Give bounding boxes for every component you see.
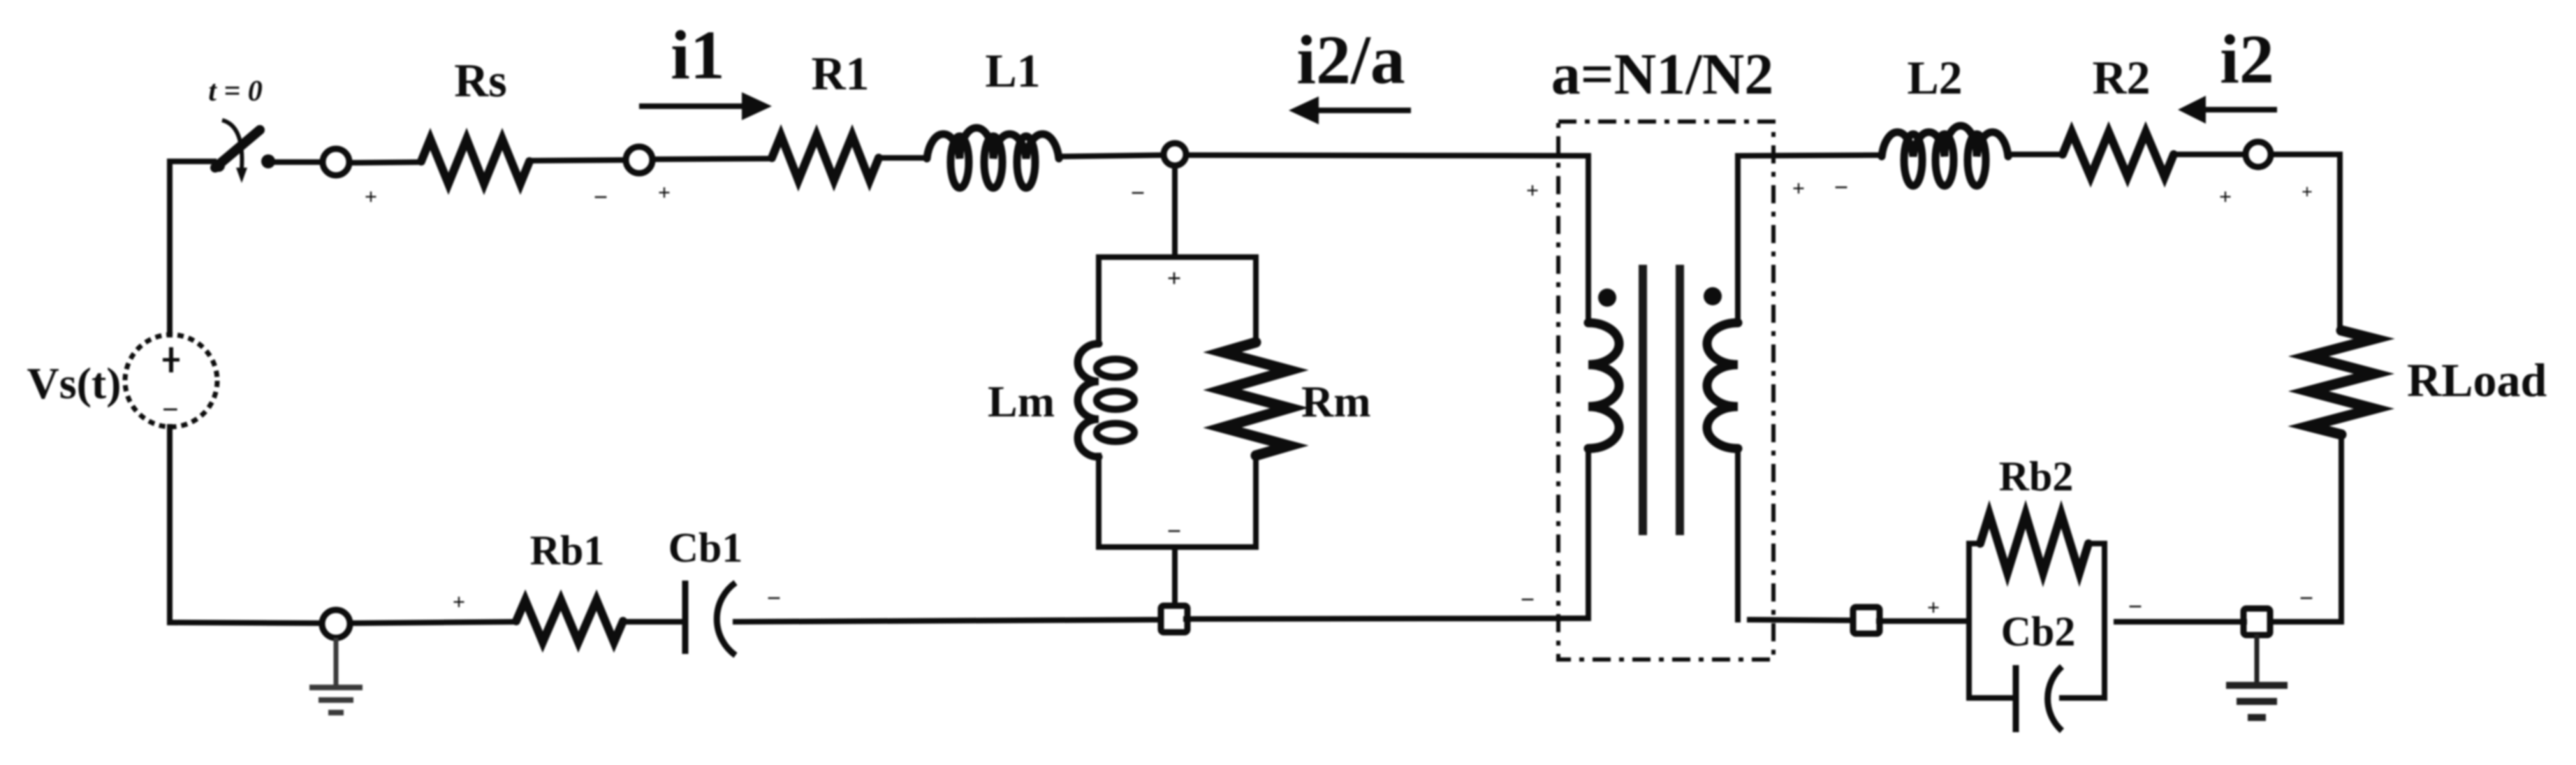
svg-text:−: − xyxy=(1521,585,1535,613)
svg-text:RLoad: RLoad xyxy=(2407,354,2547,407)
svg-text:R2: R2 xyxy=(2092,51,2150,104)
svg-text:−: − xyxy=(767,584,782,612)
svg-text:Vs(t): Vs(t) xyxy=(27,358,121,408)
svg-text:Lm: Lm xyxy=(988,377,1055,426)
svg-text:+: + xyxy=(1526,177,1539,203)
svg-text:−: − xyxy=(1131,179,1146,207)
svg-text:−: − xyxy=(162,394,179,426)
svg-text:+: + xyxy=(453,589,465,614)
svg-text:L1: L1 xyxy=(985,44,1040,97)
svg-text:+: + xyxy=(1792,175,1805,201)
svg-text:Rb1: Rb1 xyxy=(530,527,605,574)
svg-text:L2: L2 xyxy=(1907,51,1962,104)
svg-text:t = 0: t = 0 xyxy=(208,75,263,108)
svg-text:i1: i1 xyxy=(671,16,725,94)
svg-text:Cb1: Cb1 xyxy=(668,525,743,571)
svg-text:+: + xyxy=(1927,595,1940,620)
svg-text:−: − xyxy=(1834,173,1849,201)
svg-text:−: − xyxy=(2299,584,2314,612)
svg-text:+: + xyxy=(365,184,377,209)
svg-text:+: + xyxy=(658,180,671,205)
svg-text:i2: i2 xyxy=(2220,20,2274,98)
svg-text:+: + xyxy=(1167,264,1182,292)
svg-text:Rs: Rs xyxy=(454,54,507,107)
svg-text:Cb2: Cb2 xyxy=(2001,609,2076,655)
svg-text:a=N1/N2: a=N1/N2 xyxy=(1551,42,1774,107)
svg-text:Rm: Rm xyxy=(1301,377,1371,426)
svg-text:i2/a: i2/a xyxy=(1296,21,1405,99)
svg-text:−: − xyxy=(594,183,608,211)
svg-text:Rb2: Rb2 xyxy=(1999,453,2074,500)
svg-text:+: + xyxy=(2301,182,2313,203)
svg-text:+: + xyxy=(2219,184,2232,209)
svg-text:−: − xyxy=(1167,517,1182,545)
svg-text:R1: R1 xyxy=(811,47,869,100)
svg-text:−: − xyxy=(2128,592,2143,620)
